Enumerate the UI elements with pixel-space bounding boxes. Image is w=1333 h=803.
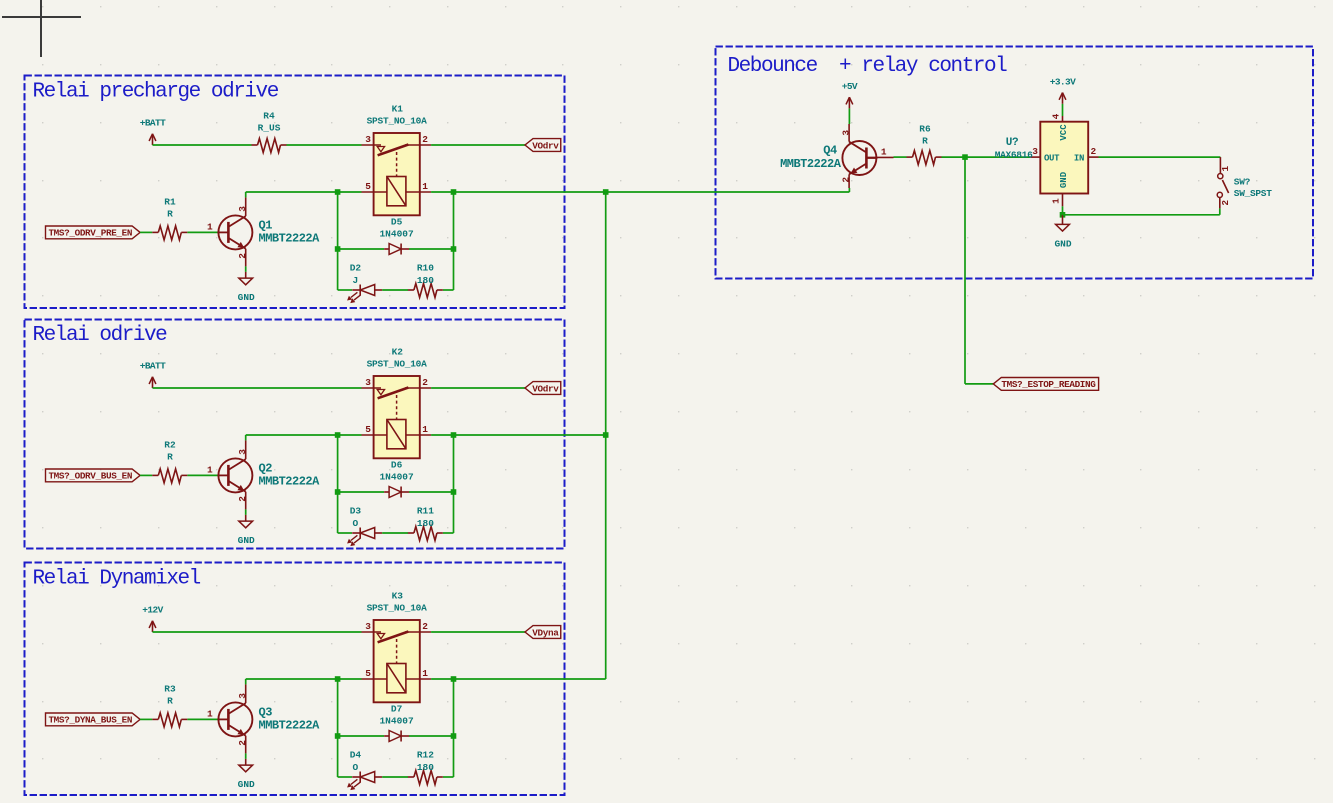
wire: [245, 266, 247, 272]
svg-text:3: 3: [365, 134, 371, 145]
wire: [187, 718, 218, 720]
wire: [140, 718, 152, 720]
junction: [335, 733, 341, 739]
svg-text:180: 180: [417, 275, 434, 286]
wire: [382, 776, 408, 778]
wire: [153, 144, 252, 146]
junction: [451, 189, 457, 195]
title Relai odrive: [33, 324, 168, 347]
svg-text:SW?: SW?: [1234, 177, 1251, 188]
svg-text:TMS?_ODRV_BUS_EN: TMS?_ODRV_BUS_EN: [48, 471, 132, 482]
svg-text:SPST_NO_10A: SPST_NO_10A: [367, 358, 428, 369]
sheet origin crosshair: [2, 0, 81, 57]
ground: [238, 272, 255, 303]
wire: [287, 144, 362, 146]
title Debounce + relay control: [728, 55, 1008, 78]
wire: [1099, 156, 1221, 158]
junction: [451, 676, 457, 682]
svg-text:MMBT2222A: MMBT2222A: [259, 232, 321, 246]
svg-text:Relai Dynamixel: Relai Dynamixel: [33, 568, 201, 591]
wire: [246, 678, 338, 680]
wire: [337, 192, 339, 290]
svg-text:TMS?_DYNA_BUS_EN: TMS?_DYNA_BUS_EN: [48, 715, 132, 726]
wire: [431, 678, 453, 680]
wire: [443, 532, 454, 534]
transistor Q4 MMBT2222A: [780, 124, 893, 188]
svg-text:K1: K1: [392, 103, 404, 114]
ground: [1054, 215, 1071, 250]
svg-text:3: 3: [365, 621, 371, 632]
power +BATT: [140, 118, 166, 146]
svg-text:GND: GND: [238, 292, 255, 303]
wire: [245, 192, 247, 197]
wire: [246, 191, 338, 193]
svg-text:Q2: Q2: [259, 461, 273, 475]
diode D6 1N4007: [379, 459, 414, 497]
svg-text:1: 1: [207, 465, 213, 476]
svg-text:Relai precharge odrive: Relai precharge odrive: [33, 81, 279, 104]
section box Debounce + relay control: [716, 47, 1314, 279]
svg-text:1: 1: [881, 146, 887, 157]
svg-text:2: 2: [1091, 146, 1097, 157]
wire: [453, 192, 455, 290]
svg-text:2: 2: [237, 496, 248, 502]
svg-text:1: 1: [207, 709, 213, 720]
svg-text:GND: GND: [1054, 239, 1071, 250]
wire: [409, 491, 454, 493]
wire: [140, 474, 152, 476]
wire: [431, 387, 525, 389]
transistor Q1 MMBT2222A: [207, 197, 320, 266]
ic U? MAX6816: [995, 113, 1099, 206]
wire: [153, 387, 362, 389]
wire: [338, 735, 384, 737]
svg-text:1: 1: [422, 181, 428, 192]
wire: [409, 248, 454, 250]
svg-text:VOdrv: VOdrv: [532, 140, 559, 151]
svg-text:3: 3: [237, 449, 248, 455]
title Relai Dynamixel: [33, 568, 201, 591]
title Relai precharge odrive: [33, 81, 279, 104]
section box Relai Dynamixel: [25, 563, 565, 796]
svg-text:+BATT: +BATT: [140, 361, 166, 372]
transistor Q2 MMBT2222A: [207, 440, 320, 509]
svg-text:GND: GND: [1059, 171, 1069, 188]
relay K3: [362, 590, 432, 702]
transistor Q3 MMBT2222A: [207, 684, 320, 753]
resistor R2: [152, 439, 187, 483]
wire: [245, 435, 247, 440]
node VOdrv: [525, 382, 561, 395]
svg-text:1: 1: [1220, 165, 1231, 171]
led D2: [347, 263, 382, 303]
svg-text:+12V: +12V: [142, 605, 163, 616]
junction: [335, 189, 341, 195]
wire: [443, 776, 454, 778]
svg-text:R: R: [922, 136, 928, 147]
svg-text:+3.3V: +3.3V: [1050, 76, 1076, 87]
svg-text:180: 180: [417, 518, 434, 529]
svg-text:5: 5: [365, 424, 371, 435]
svg-text:2: 2: [422, 621, 428, 632]
junction: [335, 432, 341, 438]
svg-text:R: R: [167, 452, 173, 463]
svg-text:SPST_NO_10A: SPST_NO_10A: [367, 602, 428, 613]
wire: [431, 434, 453, 436]
svg-text:GND: GND: [238, 779, 255, 790]
wire: [337, 679, 339, 777]
wire: [338, 191, 362, 193]
svg-text:R6: R6: [919, 123, 931, 134]
ground: [238, 515, 255, 546]
wire: [245, 753, 247, 759]
svg-text:R3: R3: [164, 683, 176, 694]
svg-text:VDyna: VDyna: [532, 627, 559, 638]
wire: [338, 289, 352, 291]
wire: [409, 735, 454, 737]
svg-text:2: 2: [422, 134, 428, 145]
svg-text:D3: D3: [350, 506, 362, 517]
resistor R10 180: [408, 263, 443, 298]
power +BATT: [140, 361, 166, 389]
svg-text:1N4007: 1N4007: [379, 716, 414, 727]
junction: [335, 489, 341, 495]
wire: [187, 474, 218, 476]
junction: [603, 432, 609, 438]
svg-text:3: 3: [237, 206, 248, 212]
junction: [451, 246, 457, 252]
resistor R11 180: [408, 506, 443, 541]
wire: [245, 679, 247, 684]
wire: [443, 289, 454, 291]
svg-text:U?: U?: [1006, 137, 1018, 149]
junction: [603, 189, 609, 195]
svg-text:K2: K2: [392, 346, 404, 357]
svg-text:Q4: Q4: [823, 144, 837, 158]
diode D5 1N4007: [379, 216, 414, 254]
node VOdrv: [525, 139, 561, 152]
svg-text:O: O: [353, 762, 359, 773]
wire: [382, 289, 408, 291]
resistor R12 180: [408, 750, 443, 785]
ground: [238, 759, 255, 790]
node VDyna: [525, 626, 561, 639]
wire: [338, 434, 362, 436]
svg-text:R: R: [167, 696, 173, 707]
wire: [848, 108, 850, 124]
wire: [1062, 104, 1064, 116]
svg-text:SW_SPST: SW_SPST: [1234, 188, 1272, 199]
wire bus vertical: [605, 192, 607, 679]
svg-text:+5V: +5V: [842, 81, 858, 92]
wire: [431, 191, 453, 193]
wire: [965, 383, 993, 385]
wire: [245, 509, 247, 515]
svg-text:D7: D7: [391, 703, 403, 714]
wire: [453, 435, 455, 533]
wire: [338, 532, 352, 534]
node TMS?_ESTOP_READING: [993, 378, 1098, 391]
resistor R4: [252, 111, 287, 153]
svg-text:Relai odrive: Relai odrive: [33, 324, 168, 347]
svg-text:D6: D6: [391, 459, 403, 470]
svg-text:1: 1: [1051, 198, 1062, 204]
wire: [431, 631, 525, 633]
svg-text:OUT: OUT: [1044, 154, 1060, 164]
svg-text:180: 180: [417, 762, 434, 773]
svg-text:1N4007: 1N4007: [379, 229, 414, 240]
svg-text:R: R: [167, 209, 173, 220]
led D4: [347, 750, 382, 790]
wire: [338, 248, 384, 250]
section box Relai odrive: [25, 320, 565, 549]
svg-text:SPST_NO_10A: SPST_NO_10A: [367, 115, 428, 126]
svg-text:2: 2: [237, 740, 248, 746]
svg-text:R12: R12: [417, 750, 434, 761]
power +5V: [842, 81, 858, 109]
node TMS?_ODRV_PRE_EN: [46, 226, 141, 239]
svg-text:1: 1: [422, 424, 428, 435]
svg-text:5: 5: [365, 668, 371, 679]
led D3: [347, 506, 382, 546]
relay K1: [362, 103, 432, 215]
power +3.3V: [1050, 76, 1076, 104]
node TMS?_ODRV_BUS_EN: [46, 469, 141, 482]
svg-text:D4: D4: [350, 750, 362, 761]
wire: [606, 191, 850, 193]
wire: [338, 776, 352, 778]
svg-text:R10: R10: [417, 263, 434, 274]
svg-text:MMBT2222A: MMBT2222A: [780, 157, 842, 171]
wire: [454, 434, 606, 436]
svg-text:IN: IN: [1074, 154, 1084, 164]
svg-text:3: 3: [365, 377, 371, 388]
svg-text:3: 3: [237, 693, 248, 699]
svg-text:2: 2: [422, 377, 428, 388]
wire: [337, 435, 339, 533]
wire: [848, 188, 850, 192]
junction: [451, 733, 457, 739]
switch SW? SW_SPST: [1217, 157, 1272, 208]
wire: [246, 434, 338, 436]
svg-text:GND: GND: [238, 535, 255, 546]
wire: [338, 491, 384, 493]
wire: [382, 532, 408, 534]
wire: [1063, 214, 1220, 216]
wire: [1219, 208, 1221, 214]
junction: [451, 489, 457, 495]
svg-text:O: O: [353, 518, 359, 529]
svg-text:Debounce + relay control: Debounce + relay control: [728, 55, 1008, 78]
svg-text:Q3: Q3: [259, 705, 273, 719]
svg-text:2: 2: [841, 177, 852, 183]
svg-text:D5: D5: [391, 216, 403, 227]
svg-text:MMBT2222A: MMBT2222A: [259, 475, 321, 489]
wire: [453, 679, 455, 777]
diode D7 1N4007: [379, 703, 414, 741]
svg-text:1: 1: [207, 222, 213, 233]
svg-text:R4: R4: [263, 111, 275, 122]
relay K2: [362, 346, 432, 458]
wire: [942, 156, 1031, 158]
wire: [338, 678, 362, 680]
junction: [962, 154, 968, 160]
power +12V: [142, 605, 163, 633]
svg-text:1N4007: 1N4007: [379, 472, 414, 483]
svg-text:K3: K3: [392, 590, 404, 601]
resistor R1: [152, 196, 187, 240]
svg-text:VOdrv: VOdrv: [532, 383, 559, 394]
wire: [140, 231, 152, 233]
junction: [335, 676, 341, 682]
wire: [153, 631, 362, 633]
wire: [454, 678, 606, 680]
svg-text:3: 3: [1032, 146, 1038, 157]
resistor R3: [152, 683, 187, 727]
node TMS?_DYNA_BUS_EN: [46, 713, 141, 726]
wire: [454, 191, 606, 193]
svg-text:D2: D2: [350, 263, 362, 274]
resistor R6: [907, 123, 942, 164]
svg-text:MAX6816: MAX6816: [995, 150, 1033, 161]
svg-text:Q1: Q1: [259, 218, 273, 232]
svg-text:MMBT2222A: MMBT2222A: [259, 719, 321, 733]
svg-text:TMS?_ESTOP_READING: TMS?_ESTOP_READING: [1001, 379, 1096, 390]
svg-text:R_US: R_US: [258, 122, 281, 133]
svg-text:4: 4: [1051, 113, 1062, 119]
svg-text:2: 2: [237, 253, 248, 259]
svg-text:5: 5: [365, 181, 371, 192]
svg-text:J: J: [353, 275, 359, 286]
wire estop vertical: [964, 157, 966, 384]
svg-text:R2: R2: [164, 439, 176, 450]
svg-text:2: 2: [1220, 200, 1231, 206]
wire: [1062, 206, 1064, 215]
junction: [451, 432, 457, 438]
svg-text:VCC: VCC: [1059, 124, 1069, 141]
wire: [431, 144, 525, 146]
svg-text:1: 1: [422, 668, 428, 679]
svg-text:R11: R11: [417, 506, 434, 517]
svg-text:3: 3: [841, 130, 852, 136]
svg-text:+BATT: +BATT: [140, 118, 166, 129]
wire: [187, 231, 218, 233]
wire: [894, 156, 907, 158]
section box Relai precharge odrive: [25, 76, 565, 309]
svg-text:R1: R1: [164, 196, 176, 207]
svg-text:TMS?_ODRV_PRE_EN: TMS?_ODRV_PRE_EN: [48, 228, 132, 239]
junction: [1060, 212, 1066, 218]
junction: [335, 246, 341, 252]
